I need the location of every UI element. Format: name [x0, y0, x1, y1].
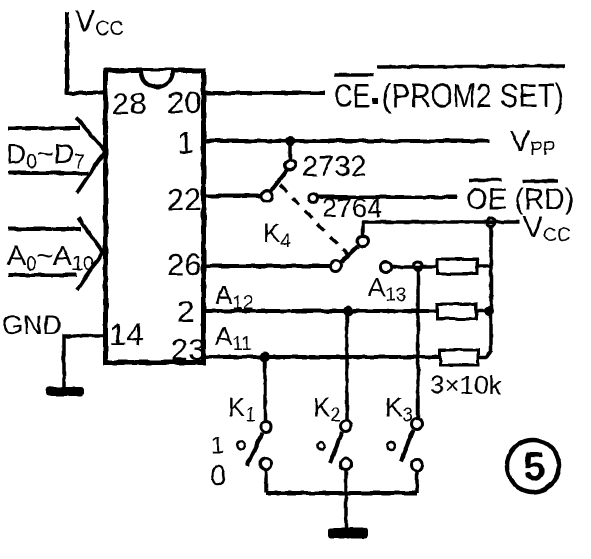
- wire K1 vertical: [263, 357, 267, 422]
- switch K1 bottom contact: [261, 459, 272, 470]
- wire R1 to rail: [477, 264, 491, 268]
- wire R2 to rail: [476, 309, 491, 313]
- ground symbol left: [46, 387, 84, 396]
- connector A13 circle: [381, 262, 392, 273]
- bus D0~D7 arrowhead upper stroke: [76, 117, 105, 151]
- svg-text:K4: K4: [263, 218, 291, 252]
- svg-text:A12: A12: [215, 280, 253, 314]
- svg-text:2: 2: [177, 294, 194, 329]
- switch K4 contact 2732 circle: [285, 160, 295, 170]
- svg-text:0: 0: [210, 460, 226, 492]
- wire GND to pin 14: [64, 336, 103, 388]
- svg-text:CE: CE: [334, 77, 370, 114]
- switch K2 bottom contact: [341, 459, 352, 470]
- svg-text:2764: 2764: [322, 193, 382, 223]
- resistor R2: [437, 304, 476, 319]
- switch K2 blade: [330, 432, 342, 463]
- overline PROM2 SET: [377, 66, 565, 67]
- switch K1 position contact: [237, 441, 245, 449]
- svg-text:28: 28: [112, 86, 146, 121]
- wire Vcc contact to Vcc rail: [363, 222, 519, 236]
- switch K2 position contact: [317, 442, 325, 450]
- svg-text:VCC: VCC: [75, 5, 124, 40]
- switch K1 top contact: [261, 422, 272, 433]
- switch K3 blade: [401, 430, 413, 461]
- bus A0~A10 arrowhead upper stroke: [78, 218, 103, 252]
- switch K3 bottom contact: [412, 460, 423, 471]
- wire K2 bottom to ground: [344, 469, 348, 528]
- svg-text:K3: K3: [385, 392, 413, 426]
- svg-text:GND: GND: [2, 310, 62, 340]
- wire pin 20 to CE: [204, 91, 325, 95]
- wire common bus bottom: [266, 491, 417, 495]
- resistor R3: [440, 350, 478, 365]
- svg-text:A0~A10: A0~A10: [7, 240, 94, 275]
- dot separator: [372, 98, 378, 104]
- IC U1 EPROM body outline: [106, 71, 204, 363]
- svg-text:(PROM2 SET): (PROM2 SET): [382, 77, 564, 114]
- bus D0~D7 arrowhead lower stroke: [77, 151, 105, 193]
- wire pin 2 A12: [204, 309, 437, 313]
- switch K4 blade lower: [341, 246, 358, 262]
- figure number circled 5: [507, 440, 559, 492]
- node on Vcc wire: [487, 218, 495, 226]
- overline OE: [469, 178, 502, 182]
- switch K4 blade upper: [271, 169, 288, 191]
- svg-text:23: 23: [171, 332, 205, 367]
- wire pin 23 A11: [204, 355, 440, 359]
- wire Vcc to pin 28: [67, 12, 104, 93]
- wire pin 1 to Vpp: [204, 139, 490, 143]
- svg-text:14: 14: [109, 317, 143, 352]
- bus A0~A10 bottom line: [8, 273, 77, 277]
- svg-text:VCC: VCC: [523, 211, 570, 246]
- svg-text:A11: A11: [215, 321, 252, 355]
- wire K2 vertical: [345, 311, 349, 421]
- bus D0~D7 bottom line: [8, 171, 88, 175]
- resistor R1: [437, 259, 477, 274]
- wire pin 22 to K4 pole: [204, 194, 261, 198]
- svg-text:K1: K1: [228, 392, 256, 426]
- bus D0~D7 top line: [8, 126, 80, 130]
- svg-text:1: 1: [177, 125, 194, 160]
- svg-text:3×10k: 3×10k: [430, 370, 503, 400]
- svg-text:VPP: VPP: [510, 125, 555, 160]
- svg-text:5: 5: [523, 445, 545, 489]
- wire pin 26 to K4 pole2: [204, 264, 330, 268]
- svg-text:D0~D7: D0~D7: [6, 138, 85, 173]
- node A13 junction: [414, 262, 422, 270]
- wire 2764 contact to OE: [318, 195, 457, 199]
- switch K3 top contact: [412, 419, 423, 430]
- wire K3 vertical: [416, 266, 420, 419]
- switch K4 contact Vcc circle: [358, 236, 369, 247]
- svg-text:26: 26: [167, 247, 201, 282]
- svg-text:K2: K2: [313, 392, 341, 426]
- svg-text:1: 1: [211, 432, 224, 459]
- svg-text:OE (RD): OE (RD): [466, 183, 574, 216]
- wire K3 bottom: [415, 470, 419, 493]
- bus A0~A10 top line: [8, 227, 81, 231]
- svg-text:22: 22: [167, 182, 201, 217]
- switch K3 position contact: [387, 442, 395, 450]
- switch K1 blade: [247, 433, 262, 466]
- overline CE: [334, 73, 374, 77]
- junction A12-K2: [343, 306, 353, 316]
- pull-up rail vertical: [478, 226, 491, 357]
- wire A13 to node: [392, 265, 436, 269]
- bus A0~A10 arrowhead lower stroke: [77, 252, 103, 290]
- overline RD: [523, 179, 558, 183]
- svg-text:2732: 2732: [302, 151, 367, 183]
- switch K4 pole circle pin22: [262, 191, 273, 202]
- svg-text:20: 20: [167, 85, 201, 120]
- switch K4 gang dashed link: [280, 185, 349, 256]
- junction A11-K1: [260, 352, 270, 362]
- junction on pin1 wire: [285, 136, 295, 146]
- switch K4 contact 2732 stub: [288, 143, 292, 160]
- ground symbol bottom: [328, 528, 368, 538]
- switch K2 top contact: [341, 421, 352, 432]
- wire K1 bottom: [264, 469, 268, 493]
- switch K4 pole2 circle pin26: [331, 261, 342, 272]
- svg-text:A13: A13: [368, 272, 406, 306]
- switch K4 contact 2764 circle: [309, 194, 318, 203]
- junction R2 rail: [484, 306, 494, 316]
